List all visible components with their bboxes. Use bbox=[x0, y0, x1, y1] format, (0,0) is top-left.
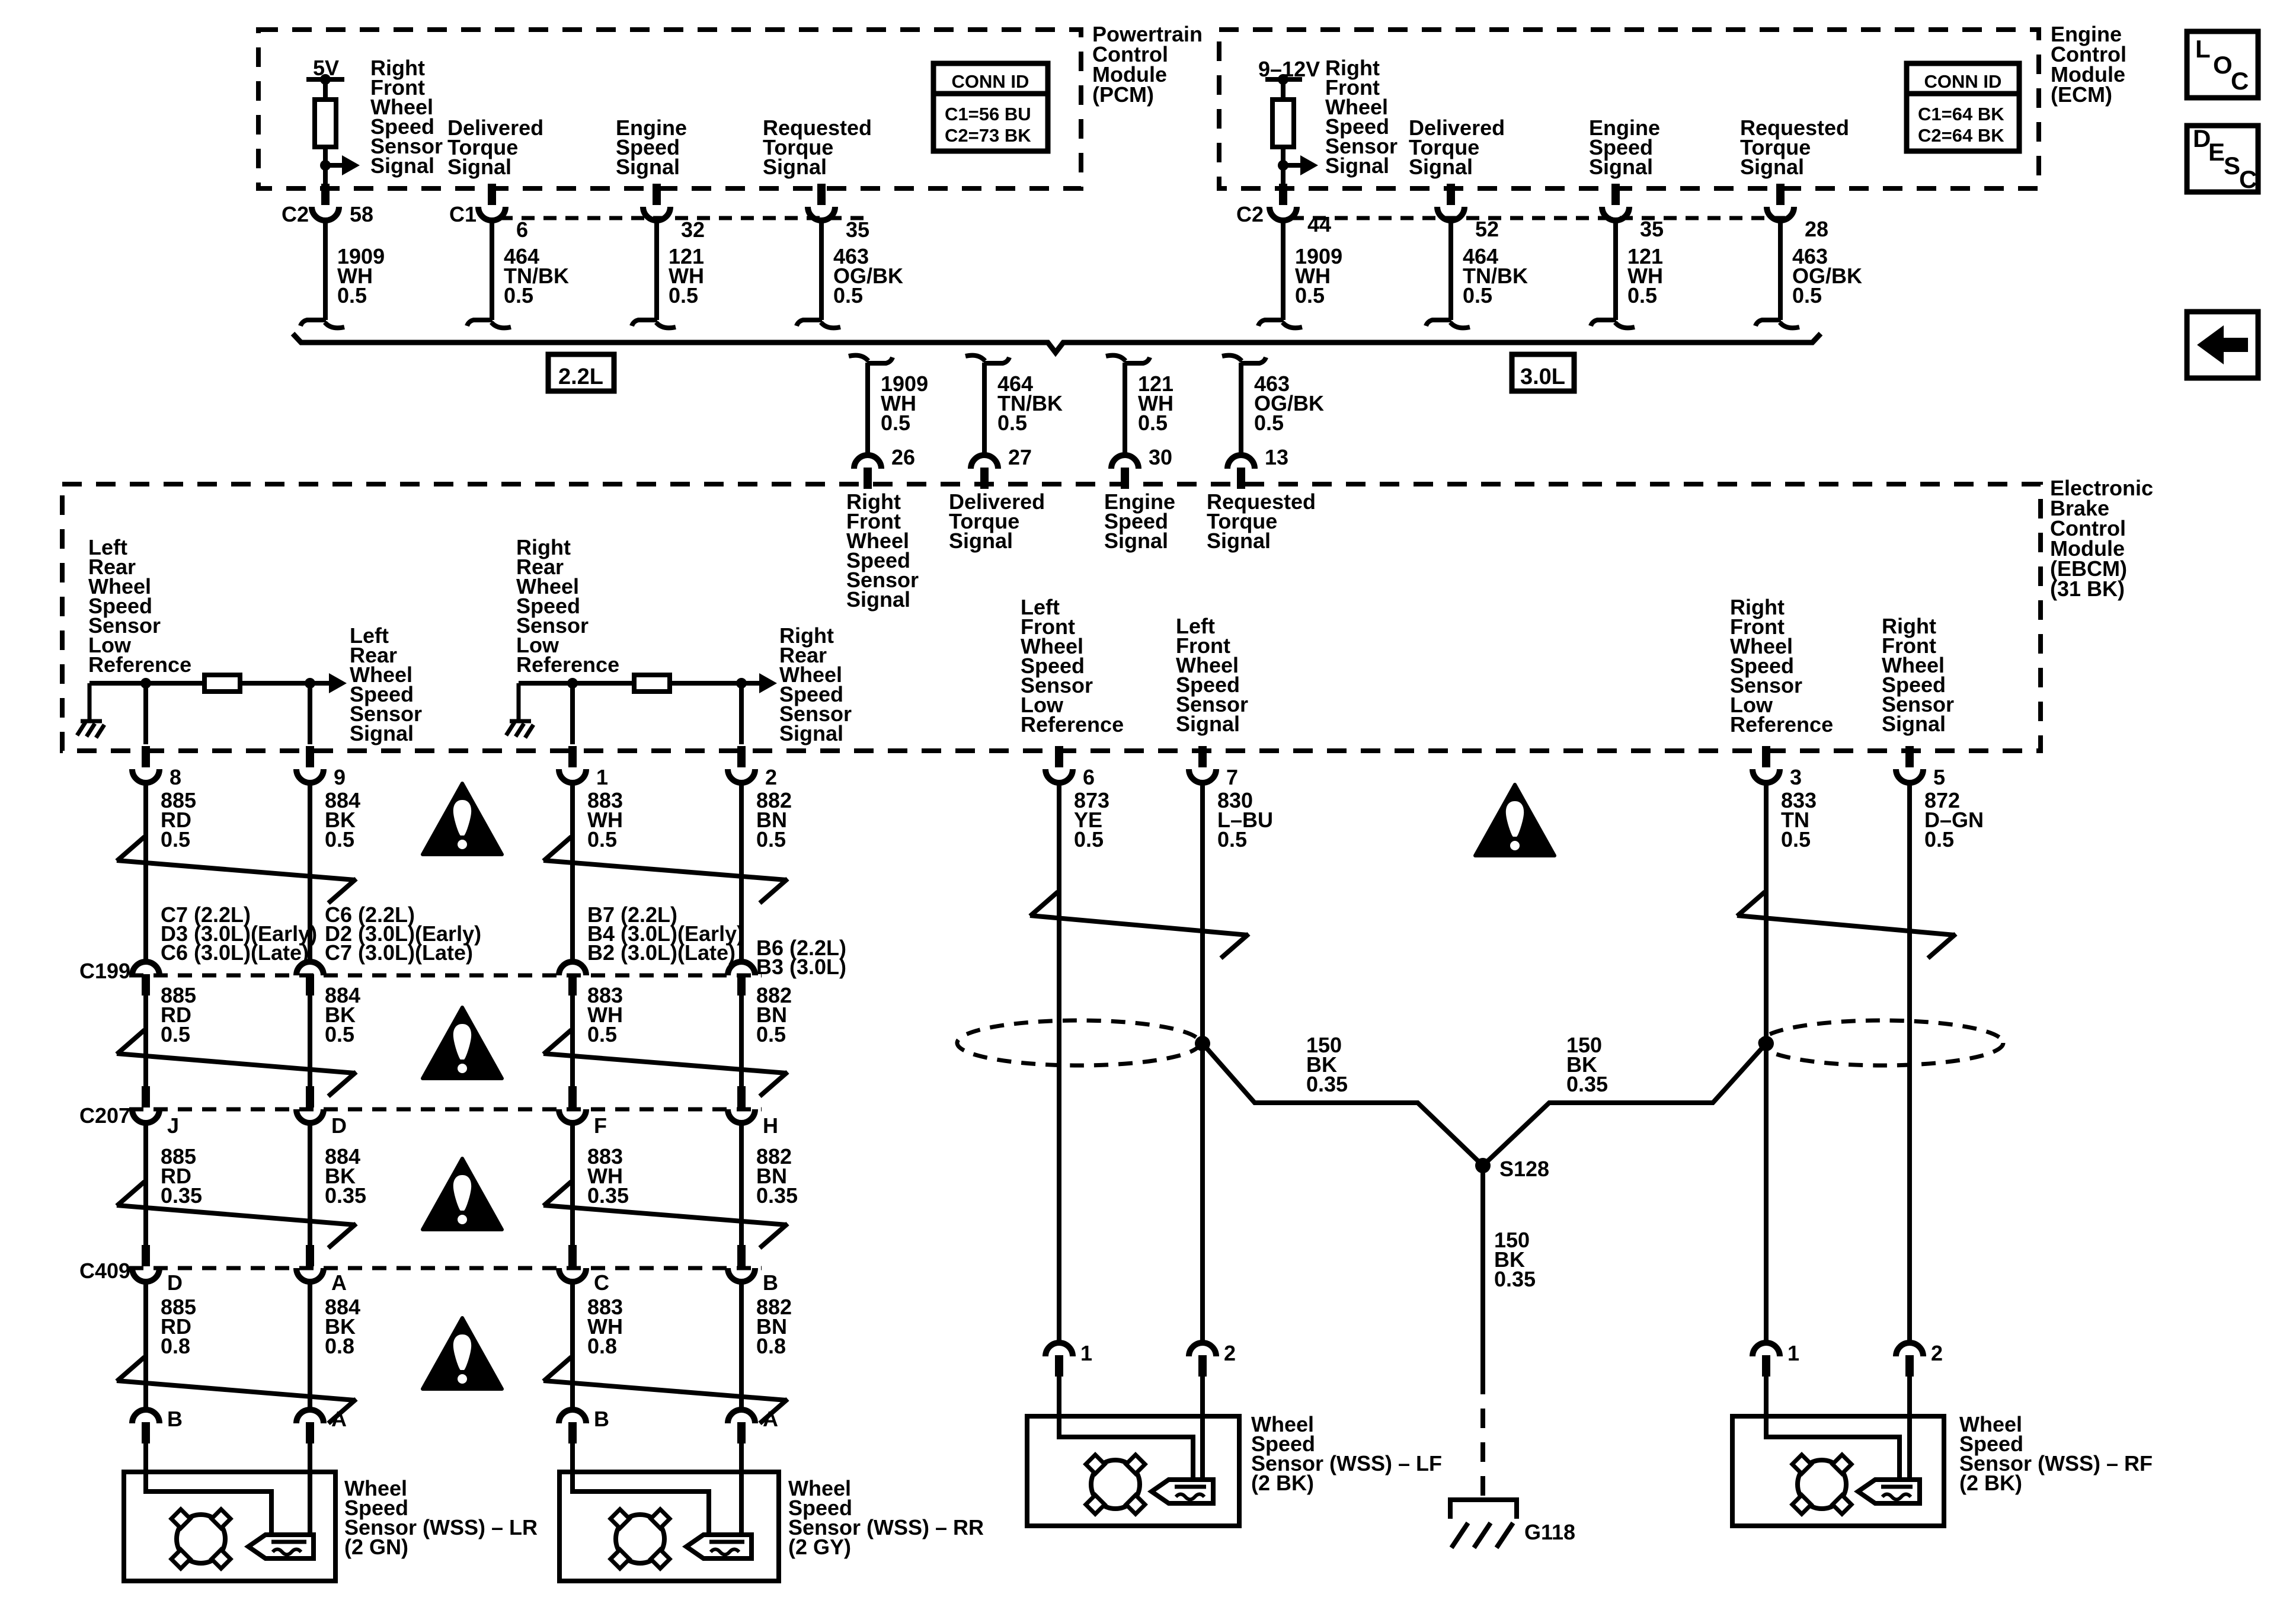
wire label 150 BK 0.35 down bbox=[1494, 1228, 1536, 1291]
svg-text:G118: G118 bbox=[1524, 1520, 1575, 1544]
Wheel Speed Sensor RF box bbox=[1732, 1416, 1944, 1526]
sensor icon LF bbox=[1086, 1455, 1213, 1514]
svg-text:0.5: 0.5 bbox=[325, 827, 354, 852]
resistor PCM pullup bbox=[315, 100, 336, 147]
connector PCM pin 35 bbox=[808, 184, 835, 220]
twist crossing R4 bbox=[543, 1357, 788, 1423]
svg-text:13: 13 bbox=[1265, 445, 1288, 469]
connector EBCM pin 7 bottom bbox=[1189, 746, 1216, 783]
svg-text:C1=56 BU: C1=56 BU bbox=[945, 104, 1031, 124]
wire into front box x2029 bbox=[1200, 1377, 1205, 1417]
svg-text:0.5: 0.5 bbox=[161, 827, 190, 852]
LR internal wire 1 bbox=[146, 1472, 271, 1536]
pin number 6 bottom bbox=[1083, 765, 1095, 789]
RF internal wire 1 bbox=[1766, 1416, 1900, 1480]
pin letter B C409 bbox=[763, 1270, 778, 1295]
svg-text:0.5: 0.5 bbox=[756, 1022, 786, 1046]
connector row C207 bbox=[129, 1108, 762, 1112]
label C199 bbox=[79, 959, 130, 983]
svg-text:C1=64 BK: C1=64 BK bbox=[1918, 104, 2004, 124]
wire label 884 BK 0.35 bbox=[325, 1144, 366, 1208]
wire label 121 WH 0.5 (mid) bbox=[1138, 372, 1173, 435]
svg-text:7: 7 bbox=[1226, 765, 1238, 789]
pin number 26 bbox=[891, 445, 915, 469]
svg-text:(ECM): (ECM) bbox=[2051, 82, 2112, 107]
svg-text:3: 3 bbox=[1790, 765, 1802, 789]
wire label 464 TN/BK 0.5 (PCM) bbox=[504, 244, 569, 308]
wire ECM x2165 bbox=[1281, 221, 1285, 320]
connector PCM pin 6 bbox=[478, 184, 506, 220]
RF internal wire 2 bbox=[1907, 1416, 1912, 1480]
ECM module box bbox=[1219, 30, 2039, 188]
connector EBCM pin 26 bbox=[854, 455, 881, 489]
wire seg1 x966 bbox=[570, 783, 575, 962]
wire 873 YE down bbox=[1057, 783, 1061, 1343]
pin label C6 group bbox=[325, 902, 481, 965]
connector EBCM pin 3 bottom bbox=[1753, 746, 1780, 783]
PCM engine speed label bbox=[616, 116, 687, 179]
ECM requested torque label bbox=[1740, 116, 1849, 179]
EBCM LF signal text bbox=[1176, 614, 1248, 736]
svg-text:Signal: Signal bbox=[1589, 155, 1653, 179]
svg-text:CONN ID: CONN ID bbox=[1924, 71, 2002, 92]
back arrow box bbox=[2187, 312, 2258, 378]
svg-text:B: B bbox=[594, 1407, 609, 1431]
wire label 885 RD 0.35 bbox=[161, 1144, 202, 1208]
pin letter A rear bbox=[331, 1407, 347, 1431]
twist crossing R2 bbox=[543, 1030, 788, 1096]
wire seg1 x523 bbox=[308, 783, 312, 962]
wire label 1909 WH 0.5 (mid) bbox=[881, 372, 928, 435]
wire label 883 WH 0.5 bbox=[587, 788, 623, 852]
svg-text:(2 BK): (2 BK) bbox=[1959, 1471, 2022, 1495]
pin letter B rear bbox=[594, 1407, 609, 1431]
wire label 883 WH 0.8 bbox=[587, 1295, 623, 1358]
twist crossing R3 bbox=[543, 1182, 788, 1248]
twist crossing L4 bbox=[117, 1357, 356, 1423]
wire label 883 WH 0.35 bbox=[587, 1144, 629, 1208]
pin letter A C409 bbox=[331, 1270, 347, 1295]
connector EBCM pin 30 bbox=[1111, 455, 1139, 489]
wire PCM x830 bbox=[490, 221, 494, 320]
svg-text:0.8: 0.8 bbox=[587, 1334, 617, 1358]
wire label 121 WH 0.5 (ECM) bbox=[1627, 244, 1663, 308]
wire seg2 x523 bbox=[308, 996, 312, 1087]
twist crossing L2 bbox=[117, 1030, 356, 1096]
pin letter D C409 bbox=[167, 1270, 183, 1295]
svg-text:0.5: 0.5 bbox=[504, 283, 533, 308]
connector EBCM pin 2 bottom bbox=[728, 746, 755, 783]
svg-text:0.5: 0.5 bbox=[1781, 827, 1811, 852]
pin letter D C207 bbox=[331, 1113, 347, 1138]
label G118 bbox=[1524, 1520, 1575, 1544]
svg-text:A: A bbox=[331, 1270, 347, 1295]
PCM module box bbox=[258, 30, 1081, 188]
svg-text:C1: C1 bbox=[449, 202, 477, 226]
ground LR bbox=[77, 721, 104, 738]
svg-text:Signal: Signal bbox=[370, 153, 434, 178]
pin number 13 bbox=[1265, 445, 1288, 469]
svg-text:Reference: Reference bbox=[1730, 712, 1833, 737]
hook wire 549 to bus bbox=[300, 320, 344, 328]
label S128 bbox=[1499, 1157, 1549, 1181]
warning triangle 5 bbox=[1475, 785, 1555, 856]
pin number 2 front x2029 bbox=[1224, 1341, 1236, 1365]
svg-text:Reference: Reference bbox=[516, 652, 619, 677]
wire label 882 BN 0.8 bbox=[756, 1295, 792, 1358]
svg-text:0.5: 0.5 bbox=[1217, 827, 1247, 852]
svg-text:2: 2 bbox=[1224, 1341, 1236, 1365]
svg-text:C6 (3.0L)(Late): C6 (3.0L)(Late) bbox=[161, 940, 309, 965]
wire label 885 RD 0.8 bbox=[161, 1295, 196, 1358]
hook ECM wire 2726 to bus bbox=[1591, 320, 1635, 328]
svg-text:Signal: Signal bbox=[1409, 155, 1473, 179]
EBCM label bbox=[2050, 476, 2153, 601]
svg-text:Signal: Signal bbox=[1882, 712, 1946, 736]
arrow RR signal bbox=[741, 673, 777, 693]
back arrow icon bbox=[2197, 325, 2248, 364]
wire LR pin9 drop bbox=[308, 683, 312, 744]
connector WSS rear pin B x246 bbox=[132, 1410, 159, 1443]
connector C199 x246 bbox=[132, 962, 159, 996]
wire ECM x2726 bbox=[1613, 221, 1618, 320]
connector EBCM pin 8 bottom bbox=[132, 746, 159, 783]
wire PCM x1108 bbox=[654, 221, 659, 320]
warning triangle 1 bbox=[423, 783, 502, 854]
wire 9-12V to resistor bbox=[1281, 79, 1285, 101]
wire 150 BK right branch bbox=[1483, 1044, 1766, 1166]
EBCM RF WSS signal text bbox=[846, 489, 919, 612]
RR internal wire 2 bbox=[739, 1472, 744, 1536]
EBCM RF low ref text bbox=[1730, 595, 1833, 737]
3.0L tag bbox=[1512, 354, 1574, 391]
svg-text:CONN ID: CONN ID bbox=[952, 71, 1029, 92]
5V bar bbox=[306, 77, 344, 82]
twist crossing L3 bbox=[117, 1182, 356, 1248]
svg-text:Signal: Signal bbox=[1176, 712, 1240, 736]
connector C207 x246 bbox=[132, 1086, 159, 1123]
DESC box bbox=[2187, 126, 2258, 192]
svg-text:L: L bbox=[2195, 35, 2211, 63]
svg-text:0.5: 0.5 bbox=[1138, 411, 1168, 435]
wire seg4 x966 bbox=[570, 1282, 575, 1410]
wire into front box x1787 bbox=[1057, 1377, 1061, 1417]
svg-text:0.5: 0.5 bbox=[337, 283, 367, 308]
pin number 27 bbox=[1008, 445, 1032, 469]
connector C409 x1251 bbox=[728, 1245, 755, 1282]
svg-text:0.8: 0.8 bbox=[325, 1334, 354, 1358]
svg-text:Signal: Signal bbox=[763, 155, 827, 179]
EBCM engine speed text bbox=[1104, 489, 1175, 553]
hook ECM wire 2165 to bus bbox=[1258, 320, 1302, 328]
svg-text:B3 (3.0L): B3 (3.0L) bbox=[756, 955, 846, 979]
label WSS RF bbox=[1959, 1412, 2153, 1495]
pin number 1 front x2980 bbox=[1787, 1341, 1799, 1365]
pin number 35 (PCM) bbox=[846, 217, 869, 242]
wire label 463 OG/BK 0.5 (mid) bbox=[1254, 372, 1324, 435]
wire S128 to G118 dashed bbox=[1480, 1375, 1485, 1496]
connector WSS rear pin A x523 bbox=[296, 1410, 324, 1443]
svg-text:0.5: 0.5 bbox=[1254, 411, 1284, 435]
svg-text:C409: C409 bbox=[79, 1259, 130, 1283]
arrow ECM signal bbox=[1283, 155, 1318, 175]
svg-text:(31 BK): (31 BK) bbox=[2050, 577, 2125, 601]
LOC box bbox=[2187, 31, 2258, 98]
wire 830 L-BU down bbox=[1200, 783, 1205, 1343]
wire seg4 x1251 bbox=[739, 1282, 744, 1410]
DESC letter E bbox=[2208, 138, 2225, 166]
connector ECM pin 52 bbox=[1437, 184, 1464, 220]
9-12V junction bbox=[1278, 74, 1288, 85]
wire into rear box x246 bbox=[143, 1443, 148, 1473]
svg-text:A: A bbox=[763, 1407, 778, 1431]
wire label 884 BK 0.5 b bbox=[325, 983, 360, 1046]
wire ECM x3004 bbox=[1778, 221, 1783, 320]
wire seg3 x1251 bbox=[739, 1124, 744, 1245]
EBCM LF low ref text bbox=[1021, 595, 1124, 737]
wire label 872 D-GN 0.5 bbox=[1924, 788, 1984, 852]
wire LR pin8 drop bbox=[143, 683, 148, 744]
5V label bbox=[313, 56, 339, 80]
wire PCM x1386 bbox=[819, 221, 824, 320]
pin label C7 group bbox=[161, 902, 317, 965]
PCM junction bbox=[320, 160, 331, 171]
Wheel Speed Sensor LF box bbox=[1027, 1416, 1239, 1526]
svg-text:B2 (3.0L)(Late): B2 (3.0L)(Late) bbox=[587, 940, 736, 965]
svg-text:0.8: 0.8 bbox=[161, 1334, 190, 1358]
wire into rear box x1251 bbox=[739, 1443, 744, 1473]
wire label 463 OG/BK 0.5 (PCM) bbox=[833, 244, 903, 308]
pin number 58 (PCM) bbox=[350, 202, 373, 226]
pin label B6 group bbox=[756, 936, 846, 979]
pin letter B rear bbox=[167, 1407, 183, 1431]
svg-text:2: 2 bbox=[765, 765, 777, 789]
svg-text:0.5: 0.5 bbox=[1295, 283, 1325, 308]
svg-text:0.5: 0.5 bbox=[1924, 827, 1954, 852]
RR low reference wire bbox=[519, 681, 765, 686]
ECM CONN ID title bbox=[1924, 71, 2002, 92]
PCM CONN ID rows bbox=[945, 104, 1031, 146]
EBCM delivered torque text bbox=[949, 489, 1045, 553]
wire ECM resistor to junction bbox=[1281, 147, 1285, 185]
svg-text:E: E bbox=[2208, 138, 2225, 166]
wire label 884 BK 0.5 bbox=[325, 788, 360, 852]
hook wire 830 to bus bbox=[467, 320, 511, 328]
bus line with brace notch bbox=[293, 334, 1821, 353]
twist crossing L1 bbox=[117, 837, 356, 903]
label WSS RR bbox=[788, 1476, 984, 1559]
svg-text:C: C bbox=[2231, 67, 2249, 95]
wire 1909 mid bbox=[865, 363, 870, 455]
pin number 2 front x3222 bbox=[1931, 1341, 1943, 1365]
connector PCM pin 58 bbox=[312, 184, 339, 220]
twist crossing front L bbox=[1030, 892, 1249, 958]
ECM RF WSS signal label bbox=[1325, 56, 1398, 178]
svg-text:0.5: 0.5 bbox=[881, 411, 910, 435]
splice S128 bbox=[1475, 1158, 1491, 1173]
svg-text:0.5: 0.5 bbox=[161, 1022, 190, 1046]
EBCM RR low ref text bbox=[516, 535, 619, 677]
pin number 35 (ECM) bbox=[1640, 217, 1664, 241]
junction LR lowref 2 bbox=[305, 678, 315, 689]
wire label 884 BK 0.8 bbox=[325, 1295, 360, 1358]
warning triangle 3 bbox=[423, 1158, 502, 1230]
svg-text:0.35: 0.35 bbox=[1566, 1072, 1608, 1096]
svg-text:Reference: Reference bbox=[1021, 712, 1124, 737]
wire 150 BK left branch bbox=[1203, 1044, 1483, 1166]
svg-text:D: D bbox=[331, 1113, 347, 1138]
svg-text:(PCM): (PCM) bbox=[1092, 82, 1154, 107]
wire S128 down solid bbox=[1480, 1166, 1485, 1375]
wire label 1909 WH 0.5 (ECM) bbox=[1295, 244, 1342, 308]
svg-text:Signal: Signal bbox=[1104, 529, 1168, 553]
svg-text:44: 44 bbox=[1307, 212, 1331, 236]
pin number 7 bottom bbox=[1226, 765, 1238, 789]
twist crossing R1 bbox=[543, 837, 788, 903]
ground G118 bbox=[1450, 1500, 1517, 1548]
svg-text:Signal: Signal bbox=[779, 721, 843, 745]
svg-text:Signal: Signal bbox=[1325, 153, 1389, 178]
connector EBCM pin 27 bbox=[971, 455, 998, 489]
svg-text:Reference: Reference bbox=[88, 652, 191, 677]
svg-text:0.35: 0.35 bbox=[756, 1183, 798, 1208]
wire ECM x2448 bbox=[1448, 221, 1453, 320]
PCM label bbox=[1092, 22, 1203, 107]
LR internal wire 2 bbox=[308, 1472, 312, 1536]
svg-text:0.35: 0.35 bbox=[161, 1183, 202, 1208]
svg-text:B: B bbox=[167, 1407, 183, 1431]
svg-text:0.35: 0.35 bbox=[587, 1183, 629, 1208]
pin number 28 (ECM) bbox=[1805, 217, 1828, 241]
connector WSS front pin 1 x2980 bbox=[1753, 1343, 1780, 1377]
wire RR pin1 drop bbox=[570, 683, 575, 744]
svg-text:Signal: Signal bbox=[1740, 155, 1804, 179]
9-12V bar bbox=[1265, 77, 1302, 82]
svg-text:C: C bbox=[2239, 165, 2257, 193]
svg-text:0.35: 0.35 bbox=[1306, 1072, 1348, 1096]
hook bus to wire 464 bbox=[965, 356, 1009, 363]
svg-text:C2: C2 bbox=[1236, 202, 1264, 226]
svg-text:0.5: 0.5 bbox=[1463, 283, 1492, 308]
svg-text:C7 (3.0L)(Late): C7 (3.0L)(Late) bbox=[325, 940, 473, 965]
svg-text:28: 28 bbox=[1805, 217, 1828, 241]
connector C199 x523 bbox=[296, 962, 324, 996]
LR low reference wire bbox=[89, 681, 335, 686]
pin number 6 (PCM) bbox=[516, 217, 528, 242]
9-12V label bbox=[1258, 57, 1320, 81]
EBCM LR low ref text bbox=[88, 535, 191, 677]
svg-text:O: O bbox=[2213, 51, 2233, 79]
pin letter A rear bbox=[763, 1407, 778, 1431]
wire RR pin2 drop bbox=[739, 683, 744, 744]
wire into front box x2980 bbox=[1764, 1377, 1769, 1417]
ECM connector dashed line bbox=[1291, 216, 1785, 220]
DESC letter C bbox=[2239, 165, 2257, 193]
connector C409 x523 bbox=[296, 1245, 324, 1282]
hook bus to wire 121 bbox=[1106, 356, 1150, 363]
ground RR bbox=[506, 721, 533, 738]
wire label 464 TN/BK 0.5 (mid) bbox=[997, 372, 1063, 435]
pin label B7 group bbox=[587, 902, 744, 965]
svg-text:35: 35 bbox=[1640, 217, 1664, 241]
svg-text:C207: C207 bbox=[79, 1103, 130, 1128]
wire seg3 x523 bbox=[308, 1124, 312, 1245]
svg-text:D: D bbox=[167, 1270, 183, 1295]
svg-text:0.5: 0.5 bbox=[756, 827, 786, 852]
ECM label bbox=[2051, 22, 2126, 107]
wire label 830 L-BU 0.5 bbox=[1217, 788, 1273, 852]
svg-text:(2 BK): (2 BK) bbox=[1251, 1471, 1314, 1495]
hook bus to wire 1909 bbox=[849, 356, 893, 363]
pin number 30 bbox=[1149, 445, 1172, 469]
connector PCM pin 32 bbox=[643, 184, 670, 220]
svg-text:J: J bbox=[167, 1113, 179, 1138]
wire label 882 BN 0.35 bbox=[756, 1144, 798, 1208]
svg-text:C2=73 BK: C2=73 BK bbox=[945, 125, 1031, 146]
svg-text:0.5: 0.5 bbox=[669, 283, 698, 308]
svg-text:35: 35 bbox=[846, 217, 869, 242]
wire resistor to junction bbox=[323, 147, 328, 185]
svg-text:(2 GY): (2 GY) bbox=[788, 1535, 851, 1559]
connector WSS rear pin A x1251 bbox=[728, 1410, 755, 1443]
pin letter J C207 bbox=[167, 1113, 179, 1138]
junction RR lowref 2 bbox=[736, 678, 747, 689]
wire label 883 WH 0.5 b bbox=[587, 983, 623, 1046]
wire 464 mid bbox=[982, 363, 987, 455]
connector row C409 bbox=[129, 1266, 762, 1270]
Wheel Speed Sensor LR box bbox=[124, 1472, 335, 1581]
pin number 44 (ECM) bbox=[1307, 212, 1331, 236]
wire label 833 TN 0.5 bbox=[1781, 788, 1817, 852]
LOC letters L bbox=[2195, 35, 2211, 63]
svg-text:0.5: 0.5 bbox=[325, 1022, 354, 1046]
hook wire 1108 to bus bbox=[632, 320, 676, 328]
RR internal wire 1 bbox=[573, 1472, 709, 1536]
wire seg1 x1251 bbox=[739, 783, 744, 962]
connector WSS front pin 2 x3222 bbox=[1896, 1343, 1923, 1377]
connector EBCM pin 13 bbox=[1227, 455, 1255, 489]
3.0L text bbox=[1520, 364, 1565, 389]
svg-text:Signal: Signal bbox=[949, 529, 1013, 553]
EBCM requested torque text bbox=[1207, 489, 1316, 553]
svg-text:0.5: 0.5 bbox=[1792, 283, 1822, 308]
svg-text:B: B bbox=[763, 1270, 778, 1295]
svg-text:8: 8 bbox=[170, 765, 181, 789]
svg-text:Signal: Signal bbox=[616, 155, 680, 179]
PCM connector dashed line bbox=[500, 216, 869, 220]
junction LR lowref bbox=[140, 678, 151, 689]
pin letter H C207 bbox=[763, 1113, 778, 1138]
svg-text:Signal: Signal bbox=[1207, 529, 1271, 553]
pin letter C C409 bbox=[594, 1270, 609, 1295]
resistor ECM pullup bbox=[1272, 100, 1294, 147]
EBCM LR signal text bbox=[350, 623, 422, 745]
wire label 882 BN 0.5 b bbox=[756, 983, 792, 1046]
svg-text:6: 6 bbox=[516, 217, 528, 242]
svg-text:58: 58 bbox=[350, 202, 373, 226]
label C207 bbox=[79, 1103, 130, 1128]
label WSS LF bbox=[1251, 1412, 1442, 1495]
svg-text:1: 1 bbox=[1787, 1341, 1799, 1365]
connector WSS front pin 2 x2029 bbox=[1189, 1343, 1216, 1377]
pin number 52 (ECM) bbox=[1475, 217, 1499, 241]
svg-text:0.5: 0.5 bbox=[997, 411, 1027, 435]
svg-text:5: 5 bbox=[1933, 765, 1945, 789]
PCM delivered torque label bbox=[447, 116, 543, 179]
wire 463 mid bbox=[1239, 363, 1243, 455]
svg-text:52: 52 bbox=[1475, 217, 1499, 241]
ECM junction bbox=[1278, 160, 1288, 171]
